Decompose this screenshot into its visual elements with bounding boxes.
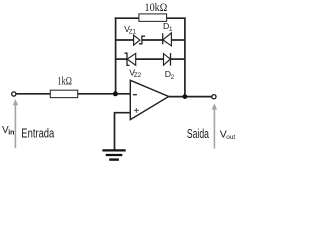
svg-text:Z1: Z1 [129,29,137,36]
svg-text:out: out [226,134,235,141]
svg-text:10kΩ: 10kΩ [145,0,168,14]
svg-text:Saida: Saida [187,126,210,141]
svg-text:1kΩ: 1kΩ [58,74,72,88]
svg-text:2: 2 [171,74,175,81]
svg-text:Entrada: Entrada [21,125,55,140]
svg-text:in: in [8,130,14,137]
svg-text:Z2: Z2 [134,72,142,79]
svg-text:1: 1 [169,26,173,33]
